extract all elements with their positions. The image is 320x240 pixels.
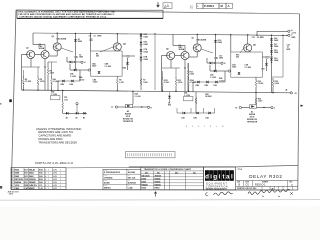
svg-text:IN429A: IN429A — [155, 183, 162, 186]
svg-text:D24: D24 — [214, 84, 217, 87]
svg-text:800: 800 — [168, 105, 171, 107]
svg-text:D664: D664 — [142, 186, 146, 189]
svg-text:B1: B1 — [83, 117, 85, 119]
svg-text:IN429A: IN429A — [142, 183, 149, 186]
svg-text:1: 1 — [60, 179, 61, 181]
svg-text:1: 1 — [48, 188, 49, 190]
svg-text:2N3639: 2N3639 — [29, 179, 36, 181]
svg-text:THYRISTOR: THYRISTOR — [123, 121, 134, 123]
svg-text:1,5OO: 1,5OO — [93, 82, 99, 84]
svg-text:EQUIPMENT: EQUIPMENT — [206, 184, 228, 186]
svg-text:c.o.: c.o. — [190, 5, 194, 7]
svg-text:L: L — [216, 126, 217, 128]
svg-text:1,500: 1,500 — [258, 101, 262, 103]
svg-text:A-PL: A-PL — [53, 187, 57, 190]
svg-text:D9B: D9B — [205, 85, 209, 87]
svg-text:D15: D15 — [262, 69, 265, 71]
svg-text:2: 2 — [45, 188, 46, 190]
svg-text:IN914: IN914 — [155, 186, 160, 189]
svg-text:IN36: IN36 — [39, 173, 43, 175]
svg-text:DELAY: DELAY — [29, 169, 36, 172]
svg-text:D664: D664 — [144, 58, 148, 61]
svg-text:IN3606: IN3606 — [155, 181, 161, 183]
svg-text:IN429A: IN429A — [15, 181, 22, 184]
svg-text:D662: D662 — [144, 44, 148, 46]
svg-text:E: E — [186, 126, 187, 128]
svg-text:ZENER: ZENER — [29, 182, 36, 184]
svg-text:i: i — [219, 174, 221, 181]
svg-text:C1,500: C1,500 — [25, 81, 31, 83]
svg-text:1: 1 — [48, 185, 49, 187]
svg-text:D662: D662 — [274, 46, 278, 48]
svg-text:D662: D662 — [144, 36, 148, 38]
svg-text:Q7: Q7 — [192, 37, 195, 39]
svg-text:D8B: D8B — [196, 85, 200, 87]
svg-text:6: 6 — [12, 185, 13, 187]
svg-text:2: 2 — [12, 173, 13, 175]
svg-text:CORPORATION: CORPORATION — [206, 185, 228, 188]
svg-text:C-1,500: C-1,500 — [210, 77, 216, 79]
svg-text:C2,000: C2,000 — [258, 83, 264, 85]
svg-text:D664: D664 — [274, 51, 278, 54]
svg-text:PRINTED CIRCUIT REV.: PRINTED CIRCUIT REV. — [237, 188, 257, 190]
svg-text:P-FRE4: P-FRE4 — [204, 4, 214, 8]
svg-text:Q3: Q3 — [52, 36, 55, 38]
svg-text:2N3639: 2N3639 — [155, 175, 161, 177]
svg-text:DMDS A: DMDS A — [104, 187, 111, 190]
svg-text:DELAY R302: DELAY R302 — [249, 174, 282, 179]
svg-text:D9A: D9A — [70, 83, 74, 86]
svg-text:1: 1 — [60, 188, 61, 190]
svg-text:1: 1 — [48, 173, 49, 175]
svg-text:D38: D38 — [182, 118, 185, 120]
svg-text:1,800: 1,800 — [143, 82, 147, 84]
svg-text:7: 7 — [12, 188, 13, 190]
svg-text:DEC: DEC — [175, 172, 179, 174]
svg-text:A: A — [228, 4, 230, 8]
svg-text:D662: D662 — [29, 176, 34, 178]
svg-text:3: 3 — [12, 176, 13, 178]
svg-text:C-1,000: C-1,000 — [135, 96, 141, 98]
svg-text:1: 1 — [60, 182, 61, 184]
svg-text:3639A: 3639A — [179, 48, 185, 51]
svg-text:1: 1 — [48, 182, 49, 184]
svg-text:A-PL: A-PL — [53, 181, 57, 184]
svg-text:Q1: Q1 — [26, 48, 30, 50]
svg-text:a: a — [226, 174, 230, 181]
svg-text:1N,2000: 1N,2000 — [205, 96, 212, 98]
svg-text:.O1 MFD: .O1 MFD — [257, 37, 265, 39]
svg-text:1: 1 — [12, 170, 13, 172]
svg-text:JUN 21 1971: JUN 21 1971 — [8, 191, 19, 193]
svg-text:J: J — [274, 108, 275, 110]
svg-text:R302: R302 — [15, 170, 20, 172]
svg-text:MMFD: MMFD — [29, 188, 35, 190]
svg-text:IN42: IN42 — [39, 181, 43, 184]
svg-text:D662: D662 — [78, 41, 82, 43]
svg-text:F: F — [192, 126, 193, 128]
svg-text:8: 8 — [45, 179, 46, 181]
svg-text:A: A — [167, 4, 170, 8]
svg-text:B-DWG44: B-DWG44 — [128, 181, 136, 184]
svg-text:C-1,500: C-1,500 — [70, 76, 76, 78]
svg-text:Q8: Q8 — [253, 45, 257, 47]
svg-text:600: 600 — [96, 56, 99, 58]
svg-text:1: 1 — [60, 176, 61, 178]
svg-text:A-PL: A-PL — [53, 172, 57, 175]
svg-text:Q4: Q4 — [123, 43, 127, 46]
svg-text:D662: D662 — [142, 181, 146, 183]
svg-text:-15: -15 — [294, 93, 297, 95]
svg-text:t: t — [223, 174, 225, 181]
svg-text:1: 1 — [48, 176, 49, 178]
svg-text:8: 8 — [45, 173, 46, 175]
svg-text:C-40: C-40 — [39, 187, 43, 190]
svg-text:2,000: 2,000 — [275, 83, 279, 85]
svg-text:TITLE: TITLE — [238, 169, 242, 171]
svg-text:.01: .01 — [93, 35, 96, 37]
svg-text:CAPACITORS ARE MMFD: CAPACITORS ARE MMFD — [38, 134, 71, 138]
svg-text:T2: T2 — [235, 108, 237, 110]
svg-text:i: i — [210, 174, 212, 181]
svg-text:DIODES ARE D664: DIODES ARE D664 — [38, 137, 63, 141]
svg-text:Q5: Q5 — [166, 49, 170, 51]
svg-text:D664: D664 — [144, 50, 148, 53]
svg-text:6: 6 — [45, 185, 46, 187]
svg-text:C-1,800: C-1,800 — [105, 66, 111, 68]
svg-text:K: K — [224, 63, 226, 65]
svg-text:3639A: 3639A — [39, 47, 45, 50]
svg-text:2: 2 — [45, 182, 46, 184]
svg-text:2D: 2D — [66, 117, 69, 119]
svg-text:1: 1 — [60, 170, 61, 172]
svg-text:C-449: C-449 — [128, 187, 133, 190]
svg-text:M: M — [221, 4, 224, 8]
svg-text:UNLESS OTHERWISE INDICATED:: UNLESS OTHERWISE INDICATED: — [36, 127, 82, 131]
svg-text:D662: D662 — [15, 176, 20, 178]
svg-text:1800: 1800 — [79, 57, 83, 59]
svg-text:S. PROPULATOR W: S. PROPULATOR W — [104, 171, 120, 174]
svg-text:C-1,800: C-1,800 — [245, 67, 251, 69]
svg-text:D662: D662 — [274, 40, 278, 42]
svg-text:DEC 3-49: DEC 3-49 — [128, 176, 135, 179]
svg-text:CTRS3639: CTRS3639 — [104, 177, 112, 179]
svg-text:D664: D664 — [142, 177, 146, 180]
svg-text:M: M — [222, 126, 224, 128]
svg-text:GND: GND — [291, 37, 296, 39]
svg-text:D8B: D8B — [61, 84, 65, 86]
svg-text:TRANSISTORS ARE DEC3639: TRANSISTORS ARE DEC3639 — [38, 140, 77, 144]
svg-text:600: 600 — [236, 57, 239, 59]
svg-text:D6B: D6B — [123, 68, 127, 70]
svg-text:T1: T1 — [111, 107, 113, 109]
svg-text:H: H — [151, 107, 153, 109]
svg-text:MFD: MFD — [287, 49, 292, 51]
svg-text:1,500: 1,500 — [40, 81, 45, 83]
svg-text:H: H — [198, 126, 200, 128]
svg-text:IN36: IN36 — [39, 176, 43, 178]
svg-text:1,500: 1,500 — [119, 82, 123, 84]
svg-text:1: 1 — [48, 179, 49, 181]
svg-text:1OO: 1OO — [64, 99, 68, 101]
svg-text:C5: C5 — [89, 35, 91, 37]
svg-text:C400: C400 — [92, 65, 96, 68]
svg-text:2E: 2E — [75, 117, 78, 119]
svg-text:A-PL: A-PL — [53, 184, 57, 187]
svg-text:1,500: 1,500 — [178, 82, 183, 84]
svg-text:D662: D662 — [218, 42, 222, 44]
svg-text:D4O: D4O — [194, 117, 198, 120]
svg-text:+B: +B — [285, 90, 288, 92]
svg-text:R302: R302 — [39, 170, 43, 172]
svg-text:RESISTORS ARE 1/4W, 5%: RESISTORS ARE 1/4W, 5% — [38, 130, 73, 134]
svg-text:5: 5 — [12, 182, 13, 184]
svg-text:1: 1 — [60, 185, 61, 187]
svg-text:1: 1 — [48, 170, 49, 172]
svg-text:K: K — [210, 126, 212, 128]
svg-text:1800: 1800 — [219, 58, 223, 60]
svg-text:PARTS LIST A-PL-R302-O-O: PARTS LIST A-PL-R302-O-O — [35, 161, 74, 165]
svg-text:D44: D44 — [206, 117, 209, 120]
svg-text:DEC3639B: DEC3639B — [197, 40, 207, 42]
svg-text:A A,CAM: A A,CAM — [128, 171, 136, 174]
svg-text:CC1,: CC1, — [39, 185, 43, 187]
svg-text:1,500: 1,500 — [164, 82, 169, 84]
svg-text:d: d — [205, 174, 209, 181]
svg-text:1,OOO: 1,OOO — [79, 79, 85, 81]
svg-text:1: 1 — [60, 173, 61, 175]
svg-text:COPYRIGHT 1965 BY DIGITAL EQUI: COPYRIGHT 1965 BY DIGITAL EQUIPMENT CORP… — [19, 15, 107, 18]
svg-text:2: 2 — [45, 170, 46, 172]
svg-text:D664: D664 — [274, 59, 278, 62]
svg-text:C15: C15 — [252, 37, 255, 39]
svg-text:g: g — [213, 174, 217, 181]
svg-text:H: H — [84, 62, 86, 64]
svg-text:l: l — [231, 174, 233, 181]
svg-text:A-PL: A-PL — [53, 178, 57, 181]
svg-text:3,300: 3,300 — [190, 74, 195, 76]
svg-text:A-PL: A-PL — [53, 175, 57, 178]
svg-text:1,500: 1,500 — [15, 185, 20, 187]
svg-text:C400: C400 — [232, 66, 236, 69]
svg-text:A-PL: A-PL — [53, 169, 57, 172]
svg-text:A DWG: A DWG — [104, 181, 110, 184]
svg-text:B363: B363 — [39, 179, 43, 181]
svg-text:MFD: MFD — [97, 35, 102, 37]
svg-text:1/4W 5%: 1/4W 5% — [29, 184, 37, 187]
svg-text:J: J — [204, 126, 205, 128]
svg-text:4: 4 — [45, 175, 46, 178]
svg-text:C400: C400 — [15, 187, 20, 190]
svg-text:DEC3639: DEC3639 — [15, 179, 23, 181]
svg-text:L: L — [198, 4, 200, 8]
svg-text:IN3606: IN3606 — [155, 178, 161, 180]
svg-text:DEC3639B: DEC3639B — [57, 39, 67, 41]
svg-text:DEC3639: DEC3639 — [142, 175, 150, 177]
svg-text:THYRISTOR: THYRISTOR — [247, 122, 258, 124]
svg-text:DEC: DEC — [145, 172, 149, 174]
